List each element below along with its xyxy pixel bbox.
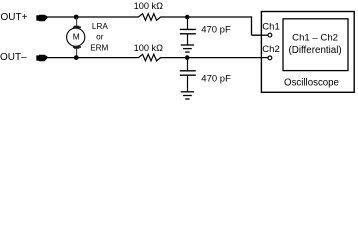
oscilloscope inner display box [283,19,348,71]
connector plug (OUT- input) [36,55,47,62]
Ch1 input terminal [268,33,272,37]
motor terminal - [73,46,81,49]
svg-text:or: or [96,32,104,41]
svg-text:Ch1: Ch1 [262,22,279,33]
wire bend down to Ch1 [251,16,253,35]
svg-text:OUT–: OUT– [0,52,27,63]
wire R2 to scope Ch2 [160,57,268,59]
junction dot motor - [74,55,79,60]
junction dot motor + [74,15,79,20]
motor M (LRA or ERM) body [67,28,85,46]
capacitor C1 bottom lead [187,34,189,45]
wire R1 to scope bend [160,16,251,18]
oscilloscope outer box [261,12,354,93]
capacitor C2 bottom lead [187,75,189,92]
wire OUT+ from plug to resistor R1 [48,16,139,18]
motor terminal + [73,26,81,29]
ground (C2) [181,91,194,93]
motor lead - [76,49,78,58]
motor lead + [76,17,78,26]
svg-text:100 kΩ: 100 kΩ [134,1,163,11]
svg-text:OUT+: OUT+ [1,12,28,23]
svg-text:470 pF: 470 pF [201,74,231,85]
svg-text:LRA: LRA [92,22,108,31]
Ch2 input terminal [268,56,272,60]
wire stub into Ch2 (inside box) [261,57,268,59]
svg-text:(Differential): (Differential) [289,45,342,56]
svg-text:Oscilloscope: Oscilloscope [284,77,339,88]
wire OUT- from plug to resistor R2 [48,57,139,59]
resistor R2 100 kOhm [138,54,160,61]
connector plug (OUT+ input) [36,15,47,22]
junction dot C2 [185,55,190,60]
svg-text:100 kΩ: 100 kΩ [134,43,163,53]
junction dot C1 [185,15,190,20]
ground (C1) [181,44,194,46]
wire stub into Ch1 [252,34,269,36]
svg-text:Ch2: Ch2 [262,44,279,55]
svg-text:Ch1 – Ch2: Ch1 – Ch2 [292,33,338,44]
svg-text:M: M [73,32,80,42]
resistor R1 100 kOhm [138,14,160,21]
svg-text:470 pF: 470 pF [201,25,231,36]
capacitor C2 plates [180,70,196,72]
svg-text:ERM: ERM [90,43,108,52]
capacitor C1 top lead [187,17,189,29]
capacitor C1 plates [180,28,196,30]
capacitor C2 top lead [187,58,189,71]
wire stub into Ch1 (inside box) [261,34,268,36]
